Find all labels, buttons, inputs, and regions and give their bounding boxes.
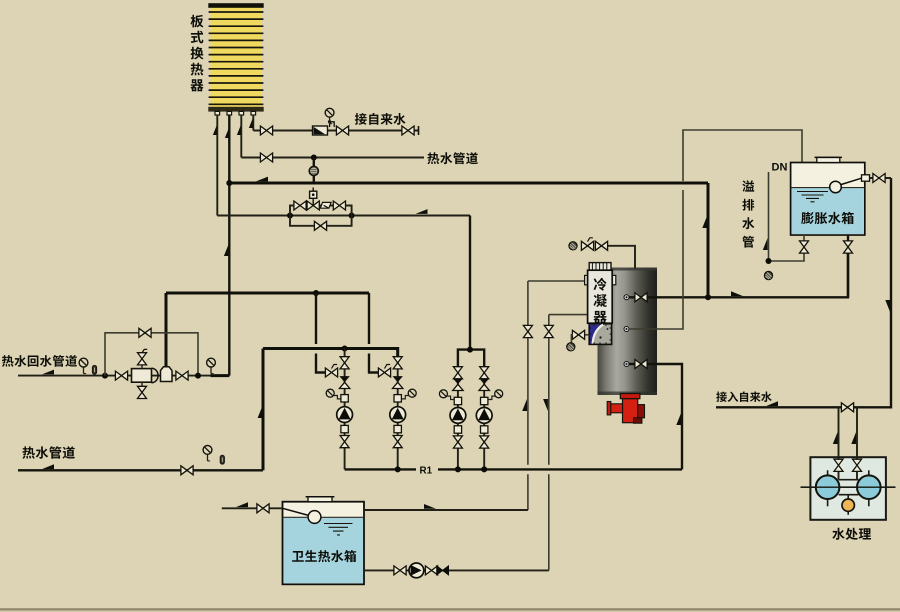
flow arrow drop x=708 [702, 216, 707, 228]
HX label 板式换热器 [190, 15, 203, 92]
pump P1 [337, 407, 353, 423]
thermometer capsule on return [92, 365, 96, 374]
pump P2 [390, 407, 406, 423]
node port1/drop junction [705, 294, 711, 300]
wire port1 to expansion line [629, 253, 848, 297]
vent valve [595, 241, 607, 250]
valve pump2 outlet [393, 436, 402, 448]
check valve on tap line [313, 126, 328, 135]
wire treatment feed stub 1 [838, 407, 840, 479]
flow arrow stub3 [237, 125, 241, 135]
wire manifold R1 y=469.4 [345, 468, 682, 470]
flow arrow overflow [763, 238, 768, 250]
flange pump3 bottom [454, 426, 461, 433]
wire HX stub1 drop to bypass header [216, 115, 218, 216]
expansion tank lid [815, 157, 843, 162]
check valve pump4 [479, 378, 489, 390]
condenser pump red [607, 394, 644, 424]
meter top blowoff valve with flag [138, 349, 148, 368]
node return bypass east [195, 373, 201, 379]
flow arrow secondary header [416, 209, 428, 214]
flow arrow treatment 1 [833, 432, 838, 444]
label 热水管道 bottom [22, 446, 75, 458]
valve treatment 1 [834, 459, 843, 471]
condenser head unit with cap [585, 263, 616, 324]
wire return bypass loop [105, 333, 198, 376]
pump group 2 column [397, 357, 399, 469]
valve bypass upper east [333, 201, 345, 210]
treatment vessel 2 [857, 470, 881, 506]
wire tap water line y=130.5 [253, 130, 418, 132]
valve hot water bottom [181, 466, 193, 475]
wire pump2 side feed drop [369, 293, 379, 373]
drain pot below hatched unit [567, 343, 575, 351]
flange pump3 top [454, 397, 461, 404]
overflow drain pot [764, 271, 772, 279]
node return bypass west [102, 373, 108, 379]
deaerator pot on return [161, 367, 173, 382]
wire sanitary tank inlet [222, 507, 283, 509]
node junction on hot water outlet [311, 155, 317, 161]
node R1 pump2 [395, 466, 401, 472]
label 热水回水管道 [2, 355, 77, 367]
wire city water line y=407.3 [716, 178, 891, 407]
pressure gauge on return [79, 358, 88, 373]
wire riser from hot water pipe x=263 [262, 349, 265, 471]
valve bypass upper west [294, 201, 306, 210]
valve return bypass [139, 328, 151, 337]
flow arrow on header [256, 177, 268, 182]
wire lower header y=348.5 [263, 349, 398, 358]
valve tank pump suction [394, 566, 406, 575]
flow arrow hot water bottom [42, 464, 54, 469]
valve pump2 inlet [393, 357, 402, 369]
meter bottom drain valve [138, 382, 147, 398]
check valve pump1 [339, 376, 349, 388]
float valve body [862, 175, 870, 181]
drain valve at hatched unit [571, 330, 589, 343]
node pump1 feed tap [313, 290, 319, 296]
treatment vessel 1 [816, 470, 840, 506]
node R1 pump4 [481, 466, 487, 472]
valve return west [115, 371, 127, 380]
condenser label 冷凝器 [593, 278, 606, 324]
flow arrow tank inlet [236, 502, 248, 507]
water treatment box [810, 457, 886, 520]
check valve pump3 [453, 378, 463, 390]
wire hot supply header y=293 [166, 292, 369, 295]
label 水处理 [832, 528, 871, 540]
condenser lower hatched unit [589, 324, 611, 345]
valve on tap line right [336, 126, 348, 135]
svg-text:R1: R1 [420, 466, 433, 477]
pump group 4 column [483, 366, 485, 469]
flow arrow stub2 [225, 128, 229, 138]
label 卫生热水箱 [292, 550, 356, 562]
wire port2 to expansion tank [629, 130, 802, 329]
flow arrow riser x=263 [258, 406, 263, 418]
treatment crosshair horizontal [801, 486, 896, 488]
wire secondary header y=215.5 [217, 215, 470, 217]
wire return line y=375.6 [18, 375, 229, 377]
flow arrow on return riser [224, 244, 229, 256]
wire condenser attachment feed lower [549, 314, 590, 316]
sanitary tank lid [306, 497, 335, 502]
wire condensate drop x=527.9 [527, 281, 529, 510]
control valve with actuator [307, 188, 319, 211]
valve tank drain west [800, 241, 809, 253]
flow arrow x=527.9 down [522, 399, 527, 411]
treatment brine tank [842, 495, 854, 515]
water meter on return [132, 368, 159, 382]
wire HX stub3 drop to hot water line [240, 115, 242, 158]
valve treatment 2 [853, 459, 862, 471]
wire instrument drop x=313.8 [313, 158, 315, 184]
flow arrow stub1 [213, 125, 217, 135]
plate heat exchanger HX body [208, 3, 263, 111]
condenser tank cylinder [598, 268, 658, 396]
flange pump2 bottom [394, 425, 401, 432]
wire drop to pumps34 feed x=470 [469, 216, 471, 350]
node pumps34 feed [467, 347, 473, 353]
valve city water [841, 403, 853, 412]
side valve pump1 with handle [325, 365, 337, 378]
pump group 1 column [344, 349, 346, 470]
valve tank pump discharge [425, 566, 437, 575]
wire return elbow thick [211, 374, 230, 377]
relief fitting above check valve [328, 120, 334, 127]
valve pump1 outlet [340, 436, 349, 448]
wire header drop x=708 [707, 183, 710, 297]
expansion tank [791, 163, 865, 236]
wire condenser vent pipe [607, 246, 635, 269]
node pump1 top [342, 346, 348, 352]
pump P3 [450, 408, 466, 424]
gauge pump4 [485, 390, 503, 400]
wire tank top return pipe [364, 509, 528, 511]
condenser port 3 [624, 362, 629, 367]
wire pump1 side feed drop [316, 293, 327, 373]
pump sanitary circulation [409, 563, 424, 578]
wire hot water supply bottom y=470.3 [18, 469, 263, 471]
side valve pump2 with handle [378, 365, 390, 378]
flow arrow city water [766, 401, 778, 406]
flow arrow port1 line [731, 291, 743, 296]
vent valve with flag [581, 238, 593, 251]
node bypass west [287, 213, 293, 219]
temperature instrument circle [309, 167, 318, 176]
wire tank drain stub west [769, 235, 805, 261]
water level mark expansion tank [797, 192, 828, 202]
valve pump3 inlet [453, 367, 462, 379]
pressure gauge hot water bottom [203, 446, 212, 461]
wire condenser attachment feed upper [528, 280, 588, 282]
check valve pump2 [393, 376, 403, 388]
valve pump1 inlet [340, 357, 349, 369]
flange pump1 top [341, 395, 348, 402]
pipe end cap [418, 126, 420, 135]
valve on x=527.9 [523, 325, 532, 337]
valve pump4 inlet [480, 367, 489, 379]
flange pump2 top [394, 395, 401, 402]
wire hot water outlet line y=157.5 [241, 157, 424, 159]
float ball expansion tank [830, 178, 862, 193]
valve tank inlet [257, 504, 269, 513]
water level mark sanitary tank [324, 524, 353, 535]
bottom shadow line [0, 608, 900, 610]
condenser port 2 [624, 327, 629, 332]
valve port1 [635, 293, 647, 302]
flow arrow treatment 2 [851, 432, 856, 444]
wire pumps34 manifold [458, 350, 484, 368]
treatment connector rect [839, 480, 859, 495]
label 接自来水 [355, 113, 406, 125]
label 溢排水管 [742, 180, 754, 247]
wire float valve to city riser [870, 177, 892, 179]
wire tank pump line [364, 569, 549, 571]
valve on tap line [260, 126, 272, 135]
gauge pump1 [326, 389, 344, 399]
gauge pump2 [398, 389, 416, 399]
flow arrow stub4 [249, 118, 253, 128]
valve float feed [873, 174, 885, 183]
flow arrow return line [42, 370, 54, 375]
valve on hot water outlet [260, 153, 272, 162]
flange pump4 top [481, 397, 488, 404]
check valve tank pump [437, 566, 449, 575]
wire main header y=183 [229, 182, 708, 185]
flow arrow x=548.8 up [543, 399, 548, 411]
pressure gauge return east [207, 358, 216, 373]
strainer fitting on bypass [320, 202, 331, 208]
flange pump1 bottom [341, 425, 348, 432]
flange pump4 bottom [481, 426, 488, 433]
flow arrow port3 drop [676, 413, 681, 425]
svg-text:DN: DN [772, 162, 788, 174]
valve near line end [402, 126, 414, 135]
float ball sanitary tank [308, 511, 321, 524]
pump P4 [476, 408, 492, 424]
wire bypass upper branch [290, 206, 352, 216]
vent drain pot [569, 242, 577, 250]
valve on x=548.8 [544, 325, 553, 337]
valve pump3 outlet [453, 436, 462, 448]
pressure gauge on tap line [325, 108, 334, 123]
wire HX stub2 drop (return riser) [228, 115, 230, 376]
label 热水管道 top [427, 152, 478, 164]
wire HX stub4 drop to tap line [252, 115, 254, 131]
wire overflow pipe [768, 172, 770, 261]
node overflow junction [766, 258, 772, 264]
wire port3 down to manifold R1 [629, 364, 682, 469]
float arm sanitary tank [283, 508, 309, 515]
node bypass east [349, 213, 355, 219]
node junction header/return riser [226, 180, 232, 186]
HX stub nozzles [215, 111, 256, 115]
valve bypass lower [314, 221, 326, 230]
condenser port 1 [624, 295, 629, 300]
sanitary hot water tank [283, 502, 365, 585]
label 接入自来水 [716, 391, 772, 402]
valve tank outlet east [844, 241, 853, 253]
pump group 3 column [457, 366, 459, 469]
valve port3 [635, 360, 647, 369]
thermometer capsule hot water bottom [220, 455, 224, 464]
node R1 pump3 [455, 466, 461, 472]
flow arrow tank top pipe [424, 504, 436, 509]
wire condensate riser x=548.8 [548, 315, 550, 571]
wire treatment feed stub 2 [856, 407, 858, 479]
wire bypass lower branch [290, 216, 352, 226]
wire tank outlet stub east [847, 235, 849, 297]
valve pump4 outlet [480, 436, 489, 448]
flow arrow riser x=891 up [885, 300, 890, 312]
label 膨胀水箱 [801, 212, 854, 224]
valve return east [176, 371, 188, 380]
gauge pump3 [439, 390, 457, 400]
wire drop into deaerator pot x=166 [165, 293, 168, 367]
